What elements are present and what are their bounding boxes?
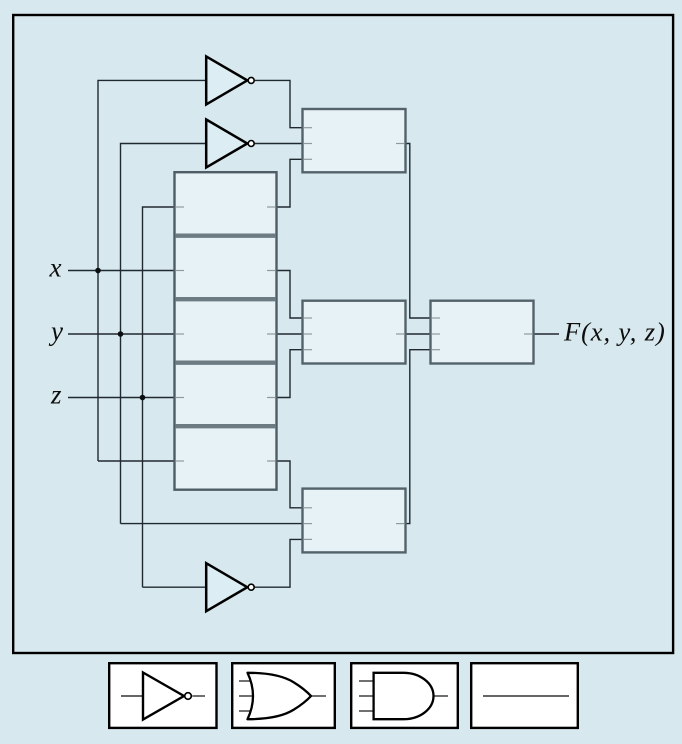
svg-text:z: z — [50, 380, 62, 410]
svg-text:F(x, y, z): F(x, y, z) — [563, 317, 666, 347]
svg-text:x: x — [49, 253, 62, 283]
svg-text:y: y — [48, 316, 63, 346]
